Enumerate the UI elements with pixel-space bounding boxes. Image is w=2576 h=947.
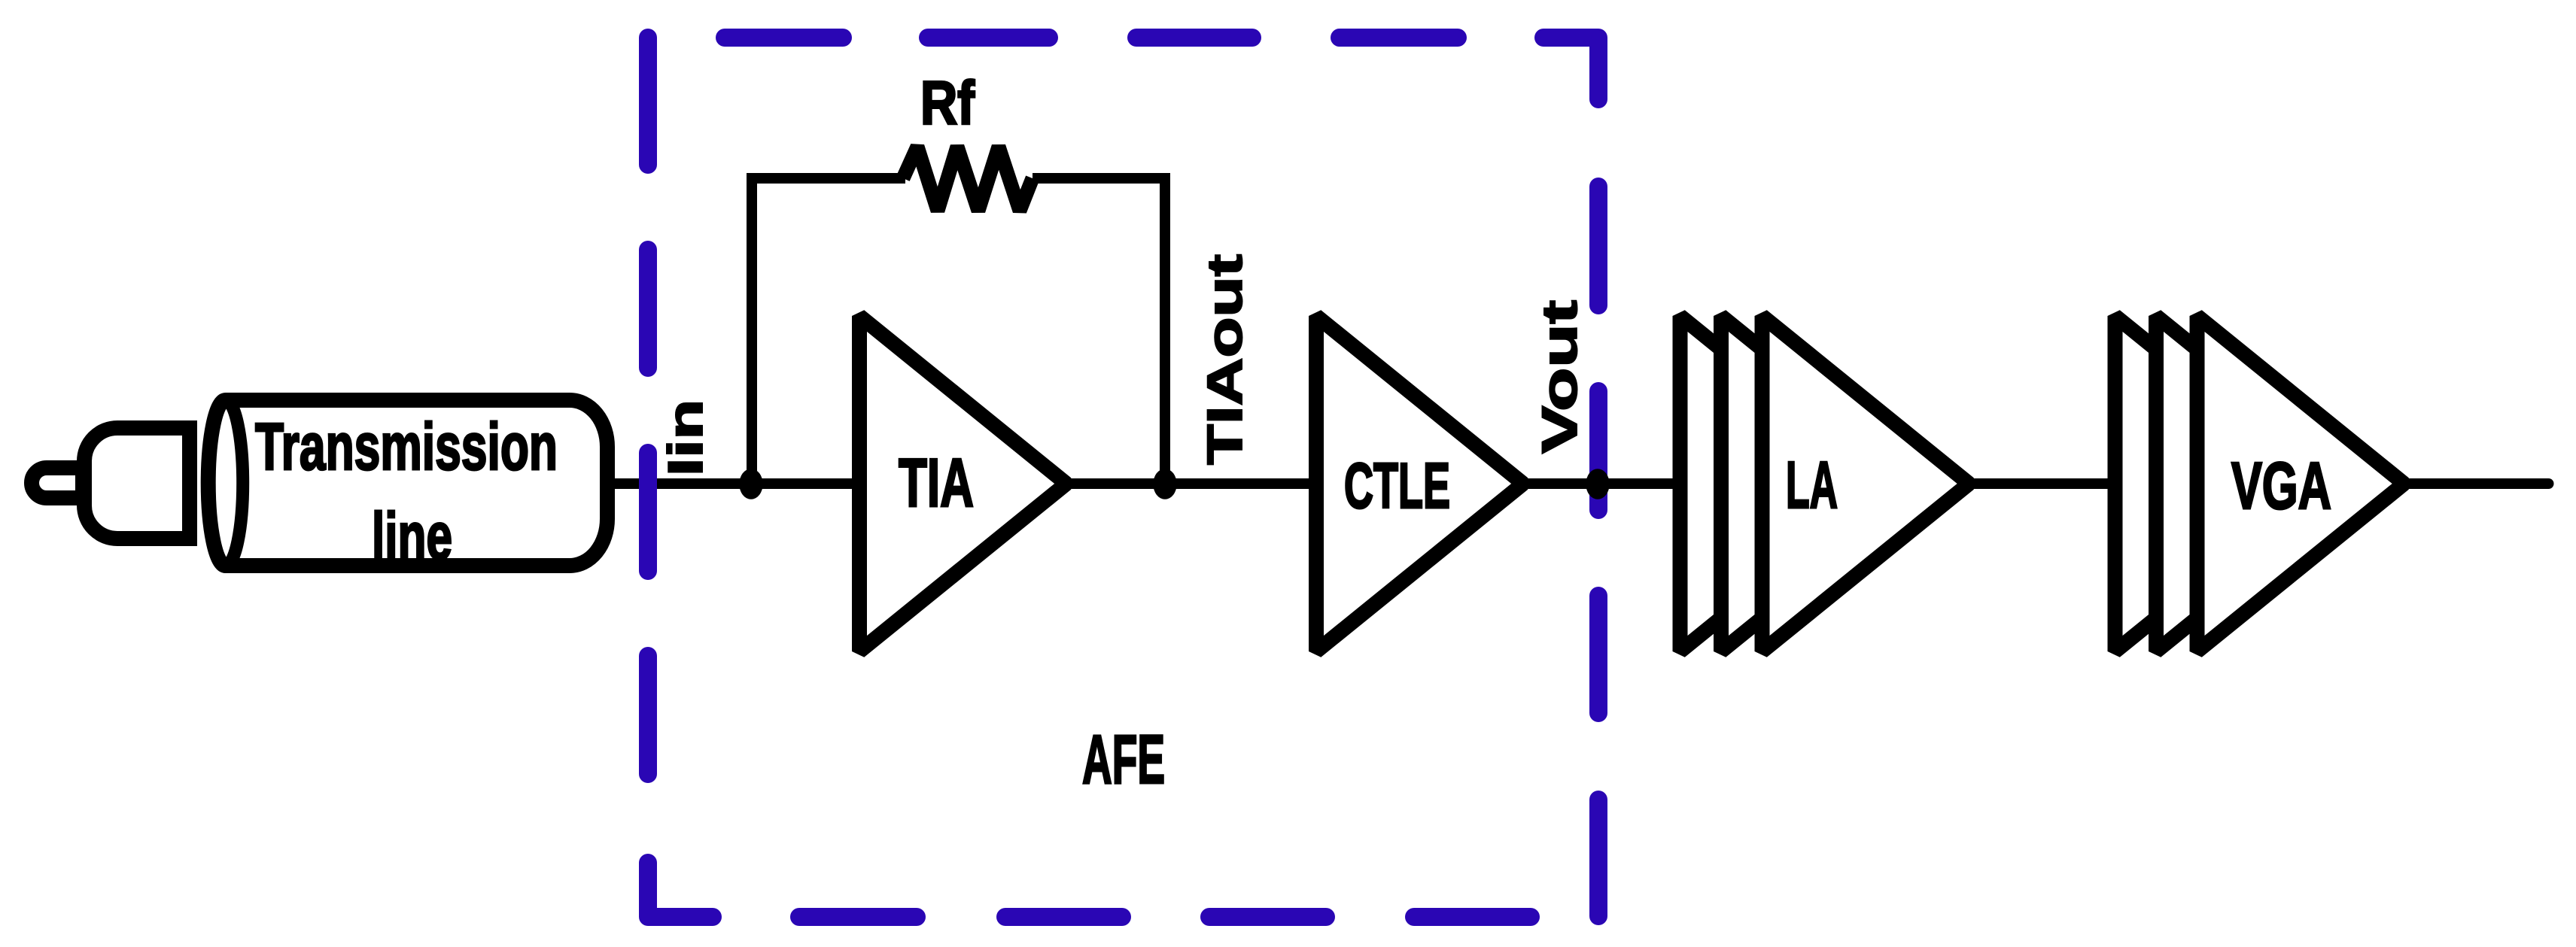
svg-text:Iin: Iin	[658, 399, 713, 476]
svg-text:LA: LA	[1786, 448, 1838, 522]
svg-text:AFE: AFE	[1082, 721, 1165, 798]
svg-text:VGA: VGA	[2231, 448, 2331, 523]
svg-text:Vout: Vout	[1531, 300, 1587, 454]
svg-text:line: line	[372, 499, 452, 573]
svg-text:Rf: Rf	[920, 69, 975, 138]
svg-text:TIAout: TIAout	[1197, 254, 1252, 465]
svg-text:CTLE: CTLE	[1344, 451, 1450, 522]
svg-text:Transmission: Transmission	[255, 409, 558, 484]
svg-text:TIA: TIA	[899, 445, 974, 521]
